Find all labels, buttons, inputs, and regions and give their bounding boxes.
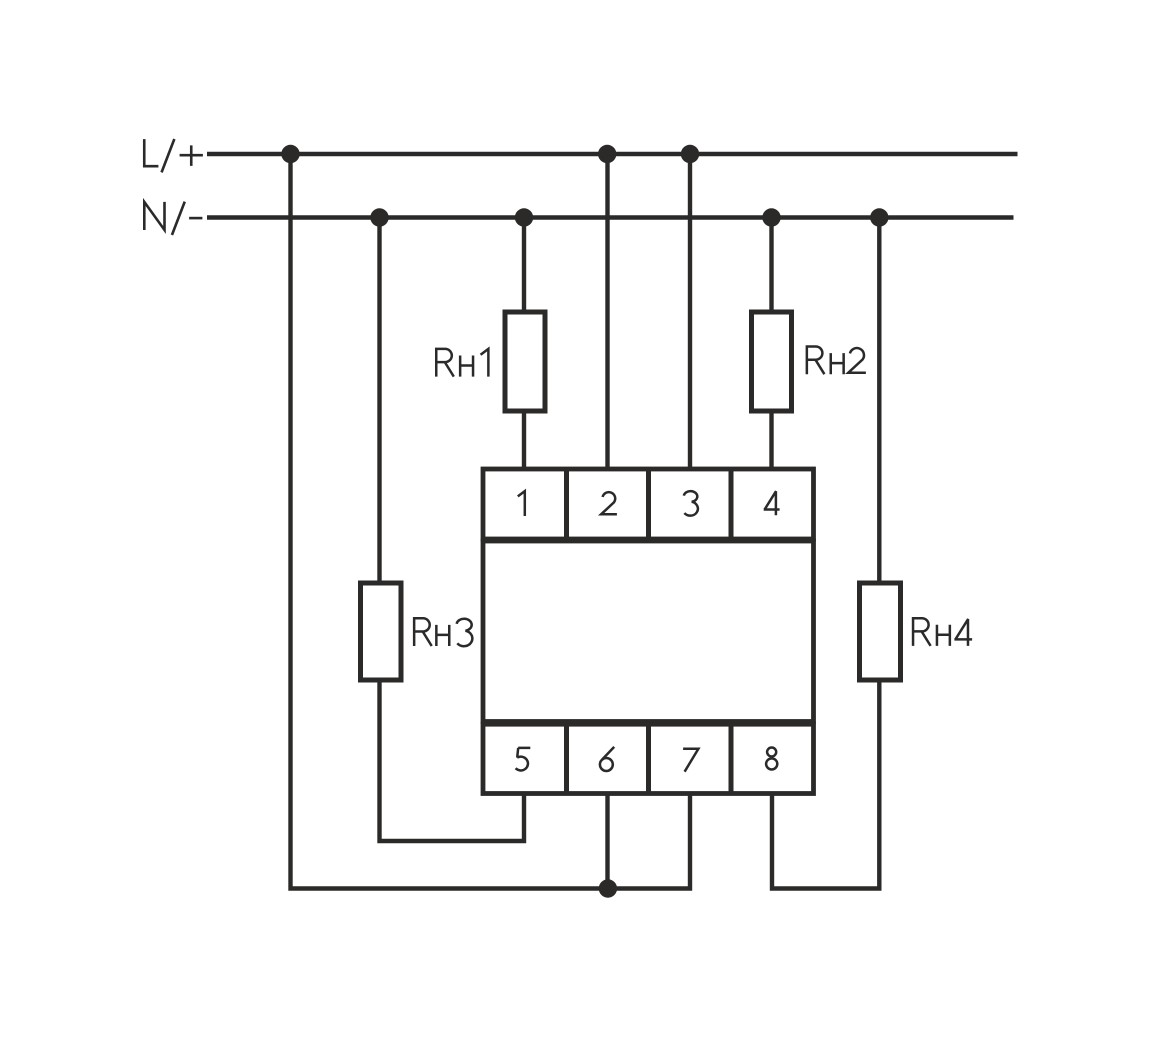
wire N/- bus bbox=[207, 215, 1014, 220]
wire L/+ bus bbox=[207, 152, 1018, 157]
wire L/+ to terminal 2 bbox=[605, 154, 609, 471]
junction dot on L bus x=607 bbox=[598, 145, 616, 163]
label RH1 bbox=[436, 349, 488, 377]
wire terminal 6 to bottom junction bbox=[605, 791, 609, 889]
junction dot on L bus x=690 bbox=[681, 145, 699, 163]
junction dot on L bus x=290 bbox=[281, 145, 299, 163]
resistor RH4 bbox=[860, 583, 901, 680]
wire L/+ to terminal 3 bbox=[688, 154, 692, 471]
wire resistor RH3 bottom to terminal 5 bbox=[380, 679, 525, 841]
wire terminal 8 down and over to resistor RH4 bottom bbox=[772, 679, 879, 889]
junction dot on bottom bus x=608 bbox=[599, 879, 617, 897]
top row divider x=648.5 bbox=[646, 469, 651, 539]
label RH3 bbox=[414, 618, 472, 646]
wire resistor RH1 bottom to terminal 1 bbox=[522, 412, 526, 471]
wire resistor RH2 bottom to terminal 4 bbox=[769, 412, 773, 471]
junction dot on N bus x=879 bbox=[870, 208, 888, 226]
bottom row divider x=648.5 bbox=[646, 724, 651, 794]
label RH2 bbox=[807, 347, 866, 375]
pin number 5 bbox=[516, 748, 531, 771]
top row divider x=731 bbox=[729, 469, 734, 539]
junction dot on N bus x=379 bbox=[370, 208, 388, 226]
device top terminal row bbox=[483, 469, 814, 539]
wire N/- to resistor RH2 top bbox=[769, 218, 773, 314]
wire N/- to resistor RH3 top bbox=[377, 218, 381, 585]
device body bbox=[483, 541, 814, 722]
net label L/+ bbox=[144, 139, 203, 172]
top row divider x=566.5 bbox=[564, 469, 569, 539]
wire from L/+ bus down left side along bottom bus to terminal 7 bbox=[291, 154, 691, 889]
bottom row divider x=731 bbox=[729, 724, 734, 794]
resistor RH3 bbox=[361, 583, 402, 680]
label RH4 bbox=[913, 618, 972, 646]
wire N/- to resistor RH4 top bbox=[877, 218, 881, 585]
net label N/- bbox=[144, 202, 202, 235]
junction dot on N bus x=771 bbox=[762, 208, 780, 226]
wire N/- to resistor RH1 top bbox=[522, 218, 526, 314]
pin number 8 bbox=[766, 748, 777, 770]
resistor RH2 bbox=[752, 312, 792, 411]
junction dot on N bus x=524 bbox=[515, 208, 533, 226]
resistor RH1 bbox=[505, 312, 545, 411]
device bottom terminal row bbox=[483, 724, 814, 793]
pin number 4 bbox=[764, 491, 780, 515]
pin number 2 bbox=[601, 492, 617, 514]
pin number 7 bbox=[683, 749, 698, 772]
pin number 3 bbox=[684, 491, 698, 516]
bottom row divider x=566.5 bbox=[564, 724, 569, 794]
pin number 6 bbox=[600, 747, 614, 771]
pin number 1 bbox=[518, 491, 525, 516]
